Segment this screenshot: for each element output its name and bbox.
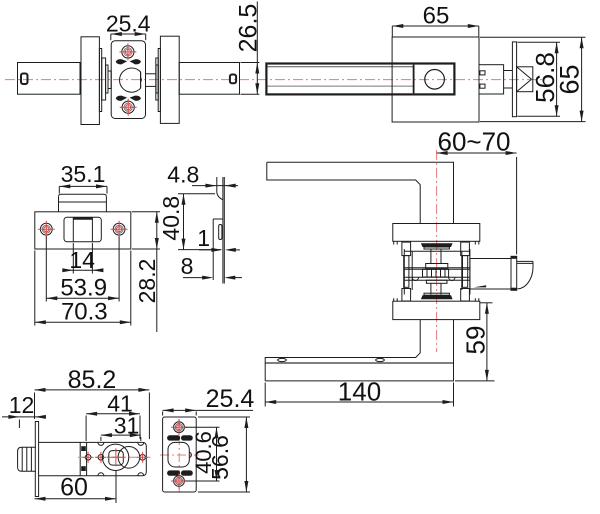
spindle upper [431, 249, 441, 264]
spindle lower [431, 283, 441, 294]
chassis mid plate [404, 268, 470, 270]
strike side view plate [223, 177, 224, 284]
left hub plate stack [99, 49, 111, 112]
svg-text:65: 65 [555, 64, 585, 94]
dimension 12 (bolt throw) [2, 392, 46, 428]
dimension 65 (rose width) [392, 3, 479, 37]
dimension 8 (tongue depth) [181, 253, 242, 280]
upper spring washer (dark) [421, 243, 453, 249]
strike plate tab [59, 194, 107, 212]
dimension 28.2 (plate height, rotated) [132, 212, 160, 332]
dimension 53.9 (screw spacing) [46, 237, 119, 302]
left knob barrel [18, 63, 81, 95]
dimension 70.3 (plate width) [35, 251, 131, 326]
chassis top screw [119, 43, 136, 60]
chassis top wings [116, 59, 141, 64]
svg-text:4.8: 4.8 [167, 162, 199, 188]
right rose (edge view) [160, 36, 179, 123]
svg-text:140: 140 [338, 377, 381, 407]
dimension 85.2 (latch length) [35, 366, 150, 439]
svg-text:25.4: 25.4 [206, 385, 255, 413]
latch faceplate (side view) [35, 422, 38, 497]
lower spring washer (dark) [421, 293, 453, 299]
lower lever screw slots [278, 358, 385, 361]
svg-text:14: 14 [69, 247, 95, 273]
housing seam [80, 442, 86, 475]
strike screw hole left [38, 221, 55, 238]
hub upper flange [426, 264, 448, 269]
chassis left post [402, 242, 411, 301]
dimension 25.4 (chassis width) [106, 11, 151, 41]
svg-text:28.2: 28.2 [134, 259, 160, 304]
dimension 31 (screw notch spacing) [101, 413, 141, 442]
svg-text:40.8: 40.8 [158, 196, 184, 241]
strike latch opening [64, 217, 101, 242]
svg-text:59: 59 [461, 326, 491, 355]
upper lever handle [267, 162, 454, 223]
dimension 25.4 (faceplate width) [163, 385, 255, 416]
upper rose [393, 224, 480, 245]
dimension 1 (plate thickness) [197, 225, 240, 252]
dimension 26.5 (knob end height) [235, 2, 263, 95]
housing rivet 3 [137, 452, 148, 463]
housing rivet 1 [83, 452, 94, 463]
right spindle bar [146, 74, 157, 87]
faceplate top wings [167, 435, 193, 440]
strike plate body [35, 212, 131, 249]
lever bar (plan view) [266, 64, 454, 95]
hub lower flange [426, 280, 447, 283]
dimension 40.6 (screw spacing, rotated) [185, 427, 220, 481]
chassis side plates [404, 249, 470, 295]
right knob key slot [230, 75, 236, 84]
chassis bottom wings [116, 96, 141, 101]
knurled hub [423, 269, 449, 277]
lever push button [425, 70, 445, 90]
svg-text:35.1: 35.1 [61, 161, 106, 187]
dimension 40.8 (strike height, rotated) [158, 194, 221, 250]
housing screw notches [98, 442, 144, 475]
chassis lower plate [404, 277, 470, 280]
lower lever handle [265, 320, 453, 381]
latch bolt (assembled) [517, 261, 533, 289]
dimension 65 (plan view height, rotated) [480, 37, 586, 121]
horizontal centerline (top views) [5, 79, 543, 81]
left rose (edge view) [81, 37, 99, 125]
svg-text:31: 31 [114, 413, 140, 439]
lower rose [393, 298, 480, 319]
latch housing (side view) [39, 442, 147, 475]
latch bolt (side view) [18, 447, 36, 471]
left knob key slot [21, 74, 28, 85]
dimension 59 (rotated) [455, 303, 495, 381]
dimension 14 (opening width) [62, 243, 103, 274]
vertical centerline (lockset) [436, 150, 438, 352]
strike screw hole right [111, 221, 128, 238]
dimension 140 (lever length) [265, 377, 453, 407]
right hub plate stack [156, 49, 161, 112]
chassis right post [461, 242, 470, 301]
chassis plate (rounded) [111, 41, 145, 119]
dimension 41 [86, 391, 140, 442]
svg-text:25.4: 25.4 [106, 11, 151, 37]
faceplate bottom wings [167, 470, 193, 475]
faceplate centerlines [160, 419, 199, 493]
faceplate front view [163, 417, 197, 492]
latch faceplate (edge, plan view) [512, 42, 516, 117]
latch faceplate (assembled) [511, 256, 517, 290]
svg-text:53.9: 53.9 [60, 275, 107, 302]
dimension 56.6 (faceplate height, rotated) [198, 417, 250, 492]
svg-text:65: 65 [423, 3, 450, 30]
right knob barrel [179, 63, 239, 95]
svg-text:70.3: 70.3 [61, 299, 108, 326]
strike side view tongue [213, 219, 223, 280]
housing rivet 2 [95, 452, 106, 463]
faceplate bottom screw [171, 473, 187, 489]
latch tube (plan view) [479, 65, 512, 94]
svg-text:60: 60 [60, 474, 88, 502]
latch housing (assembled) [470, 259, 511, 290]
svg-text:26.5: 26.5 [235, 4, 263, 53]
latch centerline (side view) [78, 456, 151, 458]
svg-text:60~70: 60~70 [437, 127, 510, 157]
lever end cap divider [413, 65, 415, 94]
faceplate latch opening [168, 442, 191, 467]
dimension 4.8 (lip depth) [167, 162, 238, 188]
chassis spindle hole [120, 68, 142, 92]
latch bolt (plan view) [517, 67, 533, 92]
dimension 60~70 (backset) [437, 127, 517, 255]
housing cam hub [102, 444, 139, 470]
faceplate top screw [171, 419, 187, 435]
svg-text:12: 12 [9, 392, 35, 418]
svg-text:1: 1 [197, 225, 210, 251]
dimension 35.1 (tab width) [59, 161, 107, 194]
strike side view lip [217, 177, 223, 200]
rose square (plan view) [392, 37, 479, 122]
svg-text:8: 8 [181, 253, 194, 279]
chassis bottom screw [120, 99, 137, 116]
dimension 60 (backset side view) [35, 471, 117, 503]
svg-text:56.6: 56.6 [207, 435, 233, 480]
dimension 56.8 (faceplate height, rotated) [518, 42, 561, 116]
